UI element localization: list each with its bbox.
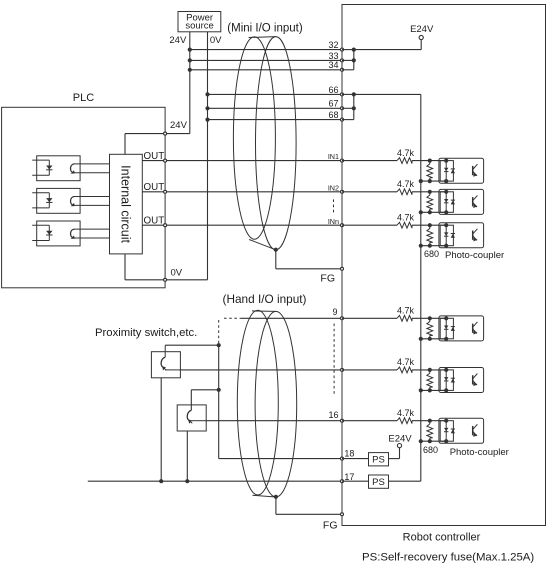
junction SW2 supply: [217, 388, 221, 392]
svg-text:E24V: E24V: [388, 434, 412, 445]
pin 67 terminal: [341, 107, 344, 110]
wire row 18: [219, 458, 342, 460]
reverse diode up 3: [451, 233, 455, 235]
junction 680 bottom 1: [428, 179, 432, 183]
pin 68 terminal: [341, 118, 344, 121]
LED diode 1: [46, 166, 52, 170]
pin FG hand terminal: [341, 513, 344, 516]
svg-text:24V: 24V: [169, 35, 187, 46]
dots more-inputs (hand): [333, 324, 335, 395]
svg-text:16: 16: [328, 410, 338, 420]
cable shield hand I/O (left ellipse): [237, 310, 278, 495]
resistor 680 row 4: [429, 318, 431, 321]
junction bus 6: [419, 439, 423, 443]
svg-text:4.7k: 4.7k: [397, 408, 415, 418]
pin 66 terminal: [341, 93, 344, 96]
photo-coupler 6: [439, 418, 484, 443]
wire row 9: [241, 317, 342, 319]
reverse diode up 6: [451, 428, 455, 430]
junction LED top 5: [444, 368, 448, 372]
wire 0V bus vertical: [420, 94, 422, 481]
junction 32 tie: [352, 48, 356, 52]
wire SW2 ground lead: [186, 431, 188, 481]
input resistor 4.7k row 2: [397, 189, 412, 195]
wire OUT row 1: [142, 160, 342, 162]
svg-text:(Hand I/O input): (Hand I/O input): [223, 292, 307, 306]
svg-text:0V: 0V: [210, 35, 222, 46]
junction 680 top 4: [428, 316, 432, 320]
svg-text:4.7k: 4.7k: [397, 306, 415, 316]
PLC box: [2, 107, 166, 287]
junction LED top 1: [444, 159, 448, 163]
pin IN2 terminal: [341, 190, 344, 193]
photo-transistor 6: [472, 426, 474, 435]
internal circuit box: [110, 154, 143, 254]
wire coupler bottom row 3: [421, 245, 446, 247]
pin 9 terminal: [341, 317, 344, 320]
svg-text:Internal circuit: Internal circuit: [119, 165, 133, 243]
junction 680 top 2: [428, 190, 432, 194]
wire 24V rail down: [124, 134, 126, 155]
svg-text:FG: FG: [320, 273, 335, 285]
resistor 680 row 5: [429, 370, 431, 373]
svg-text:67: 67: [328, 99, 338, 109]
junction bus 2: [419, 210, 423, 214]
junction bus 1: [419, 179, 423, 183]
wire common/row 17: [88, 480, 342, 482]
svg-text:66: 66: [328, 85, 338, 95]
wire PS2 to bus: [389, 480, 421, 482]
junction 24V/33: [188, 58, 192, 62]
photo-transistor 3: [472, 231, 474, 240]
wire coupler bottom row 1: [421, 180, 446, 182]
pin 18 terminal: [341, 457, 344, 460]
PLC OUT terminal 1: [164, 159, 167, 162]
photo-coupler 2: [439, 189, 484, 214]
reverse diode up 1: [451, 168, 455, 170]
photo-coupler 4: [439, 316, 484, 341]
svg-text:IN2: IN2: [328, 183, 339, 192]
wire row 1 to coupler: [342, 160, 397, 162]
wire E24V drop 2: [399, 448, 401, 459]
svg-text:FG: FG: [323, 520, 338, 532]
photo-transistor 1: [472, 166, 474, 175]
svg-text:680: 680: [423, 445, 438, 455]
wire row 2 to coupler: [342, 191, 397, 193]
junction shield hand: [274, 495, 278, 499]
wire row 3 to coupler: [342, 224, 397, 226]
reverse diode up 2: [451, 199, 455, 201]
svg-text:source: source: [185, 21, 214, 32]
LED diode down 3: [444, 232, 448, 236]
photo-transistor 4: [472, 324, 474, 333]
junction LED top 4: [444, 316, 448, 320]
LED diode down 6: [444, 428, 448, 432]
power source box: [178, 12, 221, 32]
junction LED bottom 3: [444, 244, 448, 248]
wire 66 to bus: [354, 93, 421, 95]
junction bus 5: [419, 388, 423, 392]
pin FG mini terminal: [341, 267, 344, 270]
svg-text:0V: 0V: [171, 268, 183, 279]
cable shield mini I/O (right ellipse): [255, 37, 296, 250]
pin 33 terminal: [341, 59, 344, 62]
svg-text:34: 34: [328, 60, 338, 70]
wire 32 to E24V: [354, 49, 421, 51]
svg-text:4.7k: 4.7k: [397, 179, 415, 189]
wire pin66 inside: [342, 93, 354, 95]
junction 680 bottom 5: [428, 388, 432, 392]
wire row 16: [206, 420, 342, 422]
wire row pin 33: [190, 59, 342, 61]
resistor 680 row 6: [429, 421, 431, 424]
photo-coupler 3: [439, 223, 484, 248]
junction 680 bottom 4: [428, 337, 432, 341]
dots more-inputs (mini): [333, 199, 335, 213]
svg-text:4.7k: 4.7k: [397, 212, 415, 222]
svg-text:PS: PS: [372, 455, 385, 466]
wire coupler bottom row 6: [421, 440, 446, 442]
reverse diode up 5: [451, 377, 455, 379]
wire pin68 inside: [342, 119, 354, 121]
wire 0V vertical: [207, 32, 209, 280]
terminal E24V top: [419, 35, 423, 39]
svg-text:PS: PS: [372, 477, 385, 488]
svg-text:Photo-coupler: Photo-coupler: [445, 250, 504, 261]
resistor 680 row 3: [429, 225, 431, 228]
wire SW2 out: [191, 420, 206, 422]
svg-text:INn: INn: [328, 217, 339, 226]
wire row 5 to coupler: [342, 369, 397, 371]
wire row 4 to coupler: [342, 317, 397, 319]
junction 0V/67: [205, 106, 209, 110]
PLC opto-coupler 1: [37, 156, 80, 181]
junction LED bottom 1: [444, 179, 448, 183]
junction LED bottom 5: [444, 388, 448, 392]
junction LED bottom 4: [444, 337, 448, 341]
wire 32-34 tie: [353, 50, 355, 70]
proximity switch SW1: [151, 352, 180, 378]
fuse PS2 box: [369, 475, 389, 488]
junction SW1 supply: [217, 343, 221, 347]
PLC opto transistor 2: [71, 197, 75, 206]
pin 16 terminal: [341, 419, 344, 422]
junction 680 top 3: [428, 223, 432, 227]
SW1 transistor glyph: [164, 345, 166, 357]
input resistor 4.7k row 3: [397, 222, 412, 228]
wire SW1 ground lead: [160, 378, 162, 481]
junction 680 top 5: [428, 368, 432, 372]
pin 34 terminal: [341, 68, 344, 71]
wire PLC 24V row: [125, 133, 190, 135]
svg-text:680: 680: [424, 249, 439, 259]
wire pin32 inside: [342, 49, 354, 51]
wire SW2 entry: [190, 390, 192, 411]
svg-text:4.7k: 4.7k: [397, 148, 415, 158]
wire row 6 to coupler: [342, 420, 397, 422]
wire row mid: [180, 369, 342, 371]
wire OUT row 2: [142, 191, 342, 193]
wire row 9 dashed lead: [224, 317, 241, 319]
PLC OUT terminal 2: [164, 190, 167, 193]
cable shield mini I/O (top chord): [249, 36, 276, 39]
wire row pin 32: [190, 49, 342, 51]
junction 66 tie: [352, 92, 356, 96]
LED diode down 2: [444, 199, 448, 203]
SW2 transistor glyph: [187, 410, 191, 420]
junction LED top 2: [444, 190, 448, 194]
junction bus 3: [419, 244, 423, 248]
junction LED top 6: [444, 419, 448, 423]
wire pin67 inside: [342, 107, 354, 109]
input resistor 4.7k row 4: [397, 315, 412, 321]
cable shield hand I/O (right ellipse): [255, 311, 297, 497]
wire E24V drop: [420, 39, 422, 49]
svg-text:9: 9: [332, 307, 337, 317]
pin IN1 terminal: [341, 159, 344, 162]
proximity switch SW2: [177, 405, 206, 431]
junction LED bottom 2: [444, 210, 448, 214]
wire 17 to PS2: [342, 480, 369, 482]
resistor 680 row 2: [429, 192, 431, 195]
wire coupler bottom row 2: [421, 211, 446, 213]
svg-text:PLC: PLC: [73, 92, 94, 104]
wire row pin 67: [208, 107, 343, 109]
photo-coupler 5: [439, 368, 484, 393]
wire pin33 inside: [342, 59, 354, 61]
cable shield hand I/O (top chord): [252, 310, 276, 313]
svg-text:PS:Self-recovery fuse(Max.1.25: PS:Self-recovery fuse(Max.1.25A): [362, 551, 534, 563]
input resistor 4.7k row 1: [397, 158, 412, 164]
svg-text:IN1: IN1: [328, 152, 339, 161]
PLC OUT terminal 3: [164, 224, 167, 227]
cable shield hand I/O (bottom chord): [253, 495, 276, 497]
reverse diode up 4: [451, 326, 455, 328]
svg-text:(Mini I/O input): (Mini I/O input): [227, 23, 303, 35]
junction 680 top 6: [428, 419, 432, 423]
svg-text:E24V: E24V: [410, 24, 434, 35]
photo-transistor 5: [472, 375, 474, 384]
pin mid terminal: [341, 368, 344, 371]
junction SW1 ground: [159, 479, 163, 483]
junction SW2 ground: [185, 479, 189, 483]
fuse PS1 box: [369, 453, 389, 466]
wire PLC 0V row: [125, 279, 208, 281]
junction 680 top 1: [428, 159, 432, 163]
junction 67 tie: [352, 106, 356, 110]
pin 17 terminal: [341, 480, 344, 483]
svg-text:Robot controller: Robot controller: [403, 531, 481, 543]
junction bus 4: [419, 337, 423, 341]
junction LED top 3: [444, 223, 448, 227]
terminal E24V bottom: [397, 444, 401, 448]
PLC opto-coupler 3: [37, 221, 80, 246]
svg-text:Photo-coupler: Photo-coupler: [450, 447, 509, 458]
wire 24V vertical: [189, 32, 191, 134]
wire SW1 out: [165, 369, 180, 371]
junction 680 bottom 3: [428, 244, 432, 248]
svg-text:OUT: OUT: [144, 151, 165, 162]
input resistor 4.7k row 6: [397, 418, 412, 424]
wire PS1 to E24V: [389, 458, 400, 460]
PLC opto-coupler 2: [37, 188, 80, 213]
LED diode down 5: [444, 377, 448, 381]
junction 33 tie: [352, 58, 356, 62]
LED diode down 1: [444, 168, 448, 172]
junction 680 bottom 2: [428, 210, 432, 214]
wire 66-68 tie: [353, 94, 355, 119]
wire row pin 34: [190, 69, 342, 71]
resistor 680 row 1: [429, 161, 431, 164]
junction shield mini: [274, 248, 278, 252]
LED diode down 4: [444, 326, 448, 330]
junction 680 bottom 6: [428, 439, 432, 443]
junction LED bottom 6: [444, 439, 448, 443]
wire row pin 66: [208, 93, 343, 95]
pin INn terminal: [341, 224, 344, 227]
pin 32 terminal: [341, 48, 344, 51]
junction 24V/32: [188, 48, 192, 52]
photo-transistor 2: [472, 197, 474, 206]
svg-text:Proximity switch,etc.: Proximity switch,etc.: [95, 327, 197, 339]
svg-text:32: 32: [328, 40, 338, 50]
wire 18 to PS1: [342, 458, 369, 460]
PLC opto transistor 1: [71, 164, 75, 173]
svg-text:68: 68: [328, 110, 338, 120]
wire pin34 inside: [342, 69, 354, 71]
PLC 0V terminal: [164, 278, 167, 281]
robot controller box: [342, 5, 546, 526]
junction 0V/66: [205, 92, 209, 96]
wire 0V rail down: [124, 254, 126, 280]
svg-text:18: 18: [344, 449, 354, 459]
photo-coupler 1: [439, 158, 484, 183]
wire SW1 supply: [165, 344, 219, 346]
cable shield mini I/O (bottom chord): [249, 240, 276, 250]
svg-text:OUT: OUT: [144, 182, 165, 193]
svg-text:4.7k: 4.7k: [397, 357, 415, 367]
junction 24V/34: [188, 68, 192, 72]
wire row pin 68: [208, 119, 343, 121]
wire OUT row 3: [142, 224, 342, 226]
svg-text:OUT: OUT: [144, 216, 165, 227]
wire SW2 supply: [191, 389, 218, 391]
wire coupler bottom row 5: [421, 389, 446, 391]
cable shield mini I/O (left ellipse): [233, 37, 275, 239]
svg-text:24V: 24V: [170, 120, 188, 131]
wire supply vertical: [218, 344, 220, 459]
PLC 24V terminal: [164, 132, 167, 135]
supply line dashed top: [218, 320, 220, 344]
LED diode 3: [46, 231, 52, 235]
junction 0V/68: [205, 118, 209, 122]
input resistor 4.7k row 5: [397, 367, 412, 373]
wire coupler bottom row 4: [421, 338, 446, 340]
LED diode 2: [46, 198, 52, 202]
PLC opto transistor 3: [71, 229, 75, 238]
